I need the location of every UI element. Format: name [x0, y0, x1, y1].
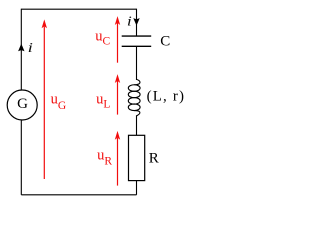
wire right vertical (inductor bottom to resistor top)	[136, 115, 138, 135]
wire left vertical upper (top corner to generator top)	[20, 9, 22, 90]
inductor L entry curve (top)	[134, 79, 140, 84]
inductor L loop 2	[128, 91, 140, 98]
svg-text:uC: uC	[95, 28, 110, 47]
resistor R body	[129, 135, 145, 180]
wire bottom horizontal	[21, 194, 136, 196]
voltage arrow uL (red, shaft)	[117, 81, 119, 115]
svg-text:i: i	[127, 14, 132, 29]
svg-text:C: C	[160, 34, 170, 50]
capacitor C bottom plate	[122, 45, 152, 47]
wire right vertical top (corner to capacitor top plate)	[136, 9, 138, 36]
voltage arrow uR head	[115, 131, 120, 140]
voltage arrow uC head	[115, 16, 120, 25]
voltage arrow uR (red, shaft)	[117, 138, 119, 186]
current arrowhead i (right branch, pointing down)	[133, 18, 139, 26]
voltage arrow uC (red, shaft)	[117, 23, 119, 63]
inductor L loop 1	[128, 85, 140, 92]
svg-text:uL: uL	[96, 92, 110, 111]
wire left vertical lower (generator bottom to bottom corner)	[20, 121, 22, 195]
svg-text:(L, r): (L, r)	[147, 89, 186, 105]
capacitor C top plate	[122, 35, 152, 37]
wire right vertical bottom (resistor bottom to bottom corner)	[136, 181, 138, 195]
svg-text:i: i	[28, 40, 34, 56]
inductor L exit curve (bottom)	[134, 111, 140, 116]
svg-text:uR: uR	[97, 147, 112, 167]
wire right vertical (capacitor bottom plate to inductor top)	[136, 46, 138, 80]
voltage arrow uG (red, shaft)	[43, 27, 45, 180]
voltage arrow uG head	[42, 19, 47, 28]
svg-text:uG: uG	[51, 92, 67, 112]
inductor L loop 4	[128, 104, 140, 111]
voltage arrow uL head	[115, 74, 120, 83]
wire top horizontal	[21, 8, 136, 10]
svg-text:G: G	[17, 96, 28, 112]
inductor L loop 3	[128, 98, 140, 105]
generator G circle	[7, 90, 37, 120]
current arrowhead i (left branch, pointing up)	[18, 44, 24, 52]
svg-text:R: R	[149, 150, 159, 166]
